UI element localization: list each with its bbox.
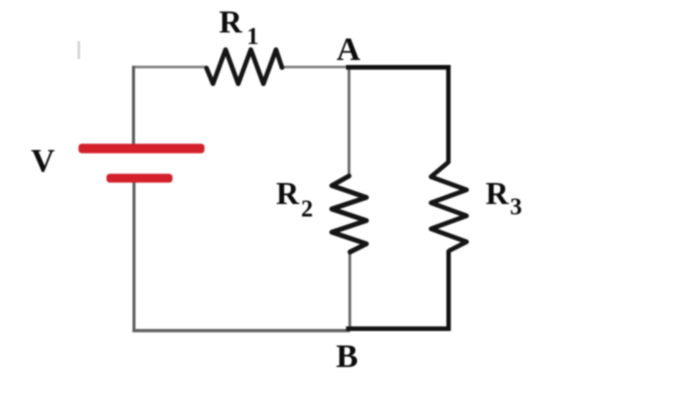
svg-text:2: 2 <box>301 196 313 222</box>
wire top-left horizontal (battery top to R1) <box>133 66 207 69</box>
wire left vertical upper (top corner down to battery) <box>132 66 135 145</box>
svg-text:3: 3 <box>510 195 522 221</box>
wire right vertical upper thick (top corner to R3) <box>446 65 450 163</box>
resistor R1 <box>207 50 283 84</box>
svg-text:R: R <box>276 175 300 211</box>
wire bottom-left horizontal (bottom corner to node B) <box>132 329 350 332</box>
battery V <box>79 144 205 183</box>
svg-text:V: V <box>31 144 55 180</box>
wire top-right horizontal thick (node A to right branch) <box>346 65 451 70</box>
svg-text:R: R <box>219 4 243 40</box>
wire middle vertical upper (node A to R2) <box>348 67 351 177</box>
wire middle vertical lower (R2 to node B) <box>348 252 351 331</box>
resistor R3 <box>431 163 467 251</box>
wire bottom-right horizontal thick (node B to right corner) <box>346 326 451 331</box>
svg-text:R: R <box>486 175 510 211</box>
svg-text:A: A <box>337 32 361 68</box>
svg-text:B: B <box>336 339 358 375</box>
wire top-middle horizontal (R1 to node A) <box>281 66 350 69</box>
resistor R2 <box>332 176 367 252</box>
wire right vertical lower thick (R3 to bottom corner) <box>446 250 450 331</box>
wire left vertical lower (battery down to bottom corner) <box>133 181 136 331</box>
svg-text:1: 1 <box>247 24 259 50</box>
artifact faint stub <box>78 41 81 59</box>
